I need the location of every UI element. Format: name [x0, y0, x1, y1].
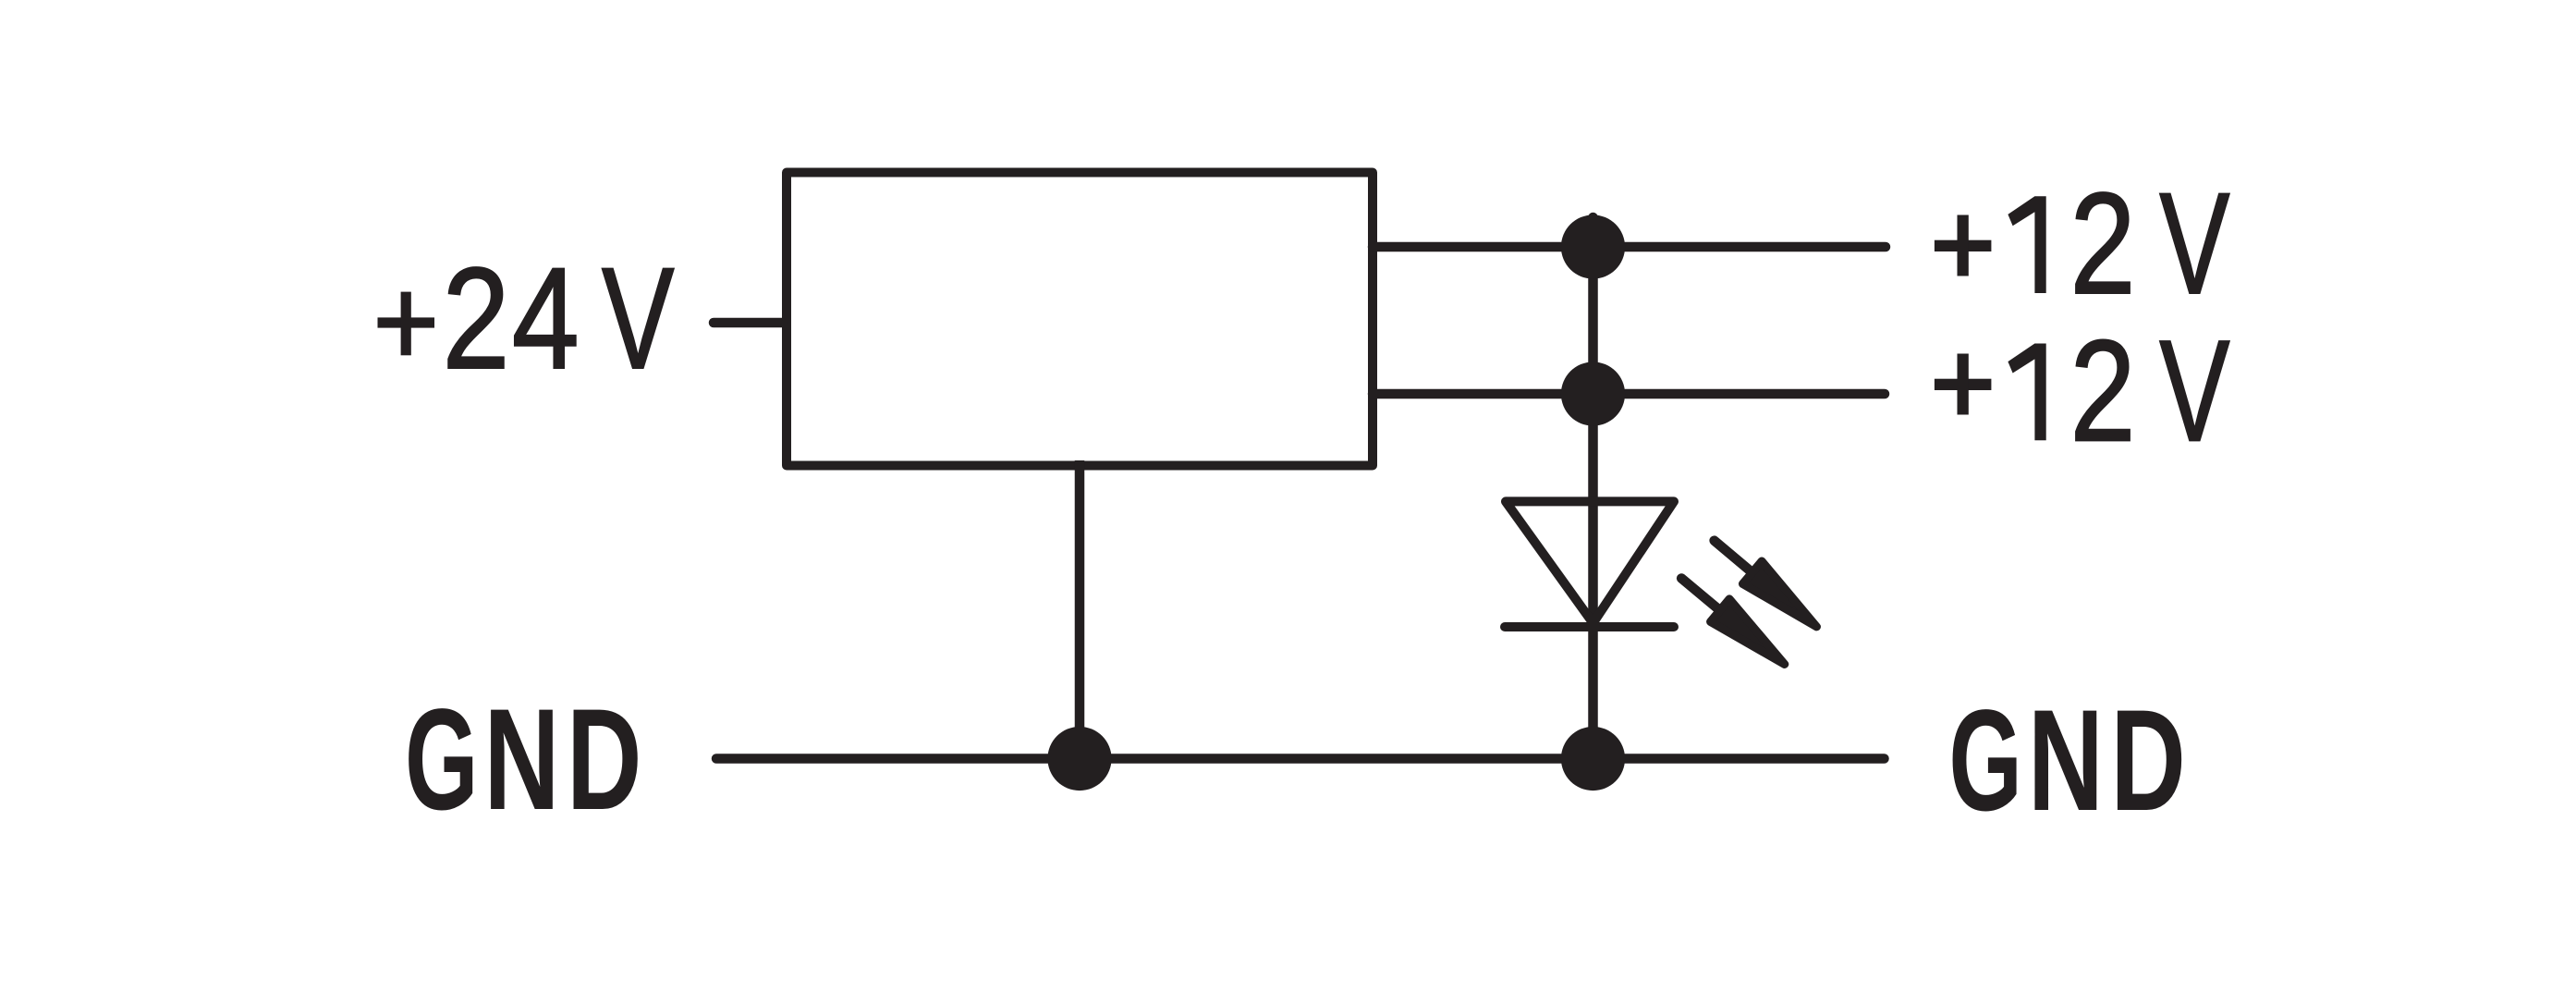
node junction dot on output 1: [1561, 214, 1625, 278]
svg-text:2: 2: [2070, 164, 2136, 325]
LED light emission arrow 1: [1704, 529, 1825, 638]
svg-text:G: G: [1948, 680, 2022, 841]
LED D1 cathode bar: [1505, 622, 1674, 631]
node junction dot on output 2: [1561, 362, 1625, 425]
svg-text:N: N: [2028, 680, 2104, 841]
svg-text:2: 2: [2070, 311, 2136, 472]
wire +12V output 2: [1373, 389, 1885, 399]
DC/DC converter block U1: [787, 173, 1373, 466]
label +24 V : plus sign: [378, 292, 435, 356]
svg-text:V: V: [602, 239, 675, 399]
wire +12V output 1: [1373, 242, 1886, 252]
svg-text:4: 4: [512, 239, 580, 399]
svg-text:D: D: [567, 680, 642, 840]
LED D1 triangle (anode): [1506, 501, 1674, 623]
wire block bottom lead to GND: [1075, 460, 1085, 759]
label +12 V (output 2) : digit 1: [2008, 344, 2045, 441]
node junction dot GND / LED: [1561, 727, 1625, 791]
svg-text:2: 2: [443, 239, 510, 399]
label +12 V (output 1) : digit 1: [2008, 196, 2045, 293]
wire vertical link from output 1 through LED to GND: [1588, 217, 1598, 759]
svg-text:D: D: [2110, 680, 2186, 841]
svg-text:V: V: [2159, 164, 2229, 325]
wire GND bus: [716, 754, 1885, 764]
node junction dot GND / block lead: [1047, 727, 1111, 791]
label +12 V (output 2) : plus sign: [1935, 354, 1992, 415]
svg-text:V: V: [2159, 311, 2229, 472]
label +12 V (output 1) : plus sign: [1935, 215, 1992, 276]
wire +24V input lead: [714, 318, 782, 328]
svg-text:N: N: [484, 680, 560, 840]
svg-text:G: G: [405, 680, 479, 840]
LED light emission arrow 2: [1672, 567, 1794, 676]
